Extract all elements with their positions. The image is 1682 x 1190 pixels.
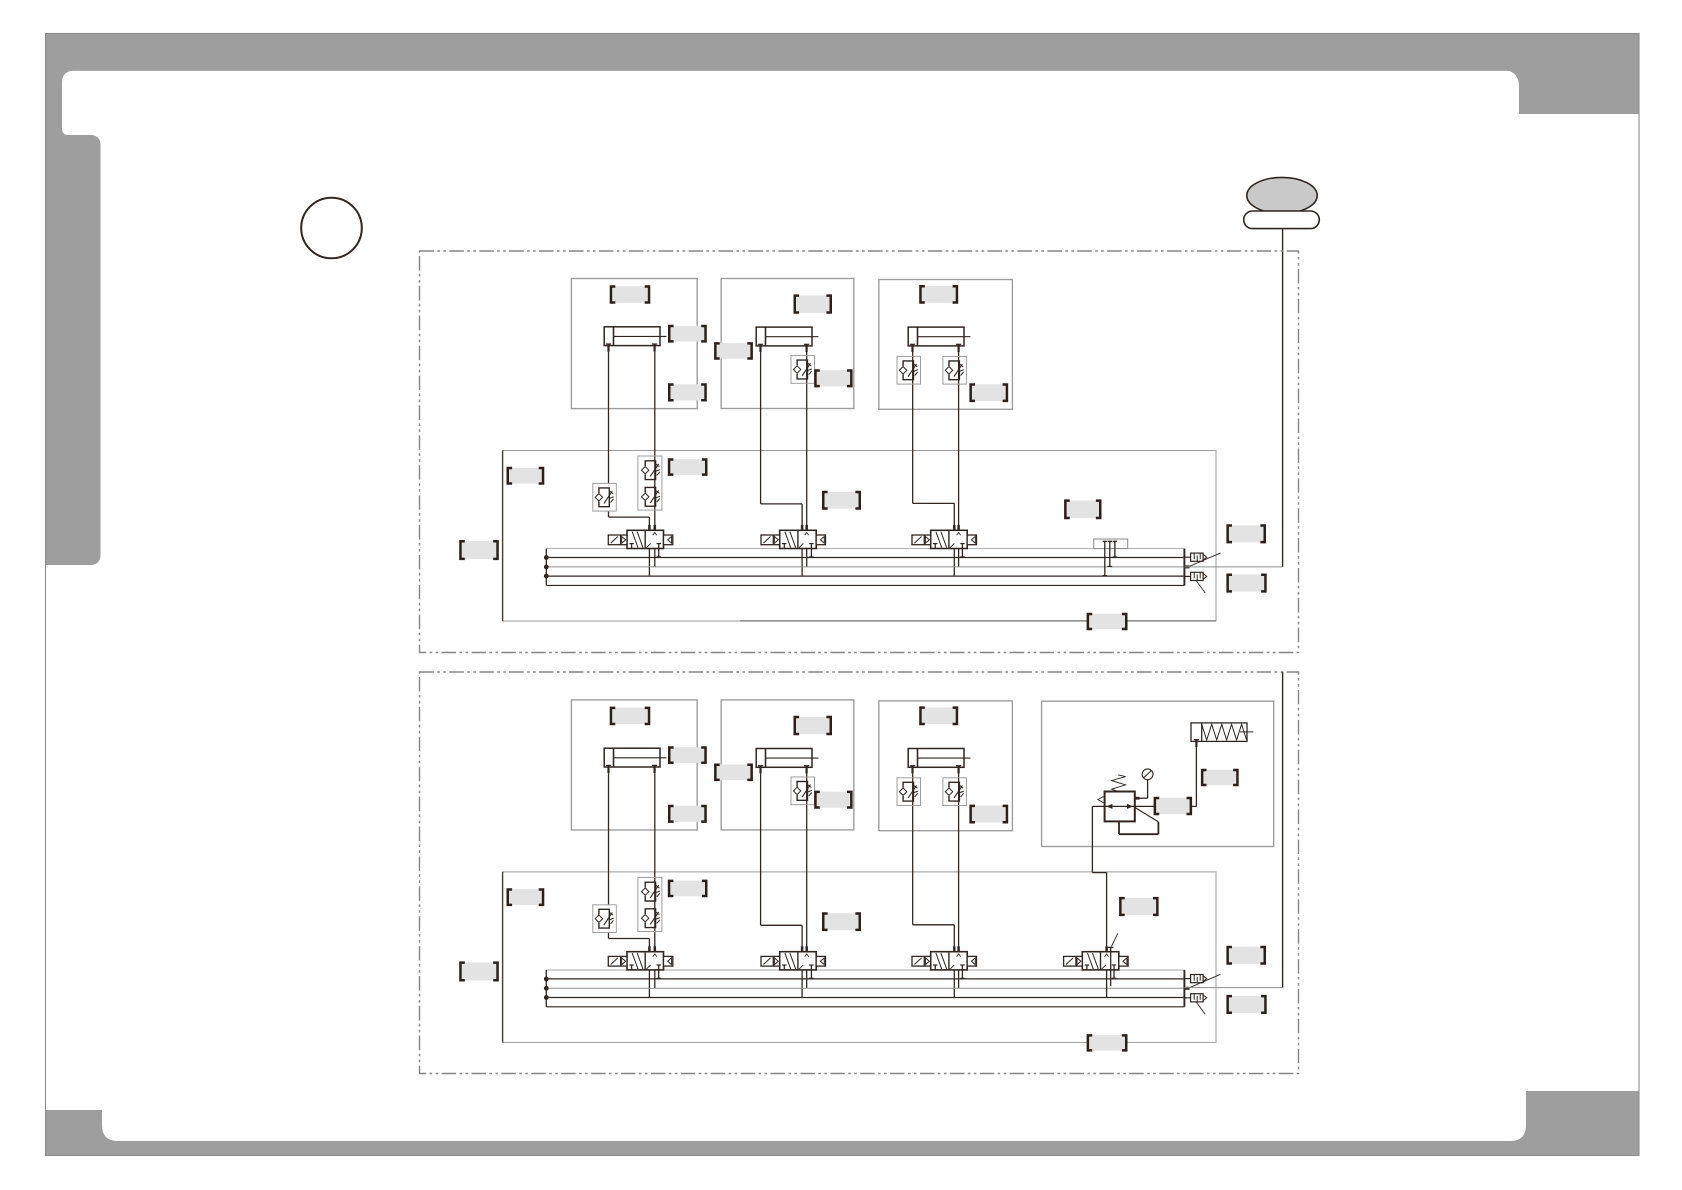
group box B4 (air prep) (1042, 701, 1274, 846)
solenoid valve AV3 (912, 525, 977, 557)
manifold box B (503, 872, 1216, 1043)
wire A1 right (654, 352, 656, 567)
wire A1 A drop (648, 517, 650, 576)
solenoid valve BV4 (1064, 946, 1129, 978)
flow control valve A3a (897, 356, 921, 384)
cylinder A1 (604, 327, 666, 352)
wire B2 A drop (801, 925, 803, 997)
manifold end plate A (1183, 549, 1185, 586)
flow control valve A1a (593, 483, 617, 511)
flow control valve A3b (943, 356, 967, 384)
manifold bus lines A (546, 548, 1184, 550)
label manifold B bottom (1088, 1035, 1126, 1051)
bus left terminator A (545, 549, 547, 586)
wire A1 left (608, 352, 610, 484)
label right2 B (1228, 996, 1266, 1013)
valve BV4 port stub (1110, 947, 1112, 986)
solenoid valve AV1 (608, 525, 673, 557)
label A2 left (715, 343, 751, 359)
wire B3 A drop (953, 925, 955, 998)
pressure gauge (1135, 769, 1153, 798)
silencer B1 (1191, 975, 1207, 983)
label B1 right (669, 747, 705, 763)
wire: spring cylinder to regulator (1195, 747, 1197, 806)
label manifold A tl (508, 468, 543, 484)
label valve BV4 (1120, 898, 1157, 915)
label B3 lower (971, 806, 1007, 823)
flow control valve B3b (943, 778, 967, 806)
label manifold A v3r (1065, 500, 1100, 518)
label B2 left (715, 765, 751, 781)
blanking plate (top manifold) (1094, 539, 1128, 549)
group box B1 (571, 700, 697, 830)
flow control valves B1b (638, 877, 662, 931)
wire: main supply line (top) (1282, 229, 1284, 567)
wire B1 A drop (648, 939, 650, 998)
label A1 right (669, 326, 705, 342)
leader lines B (1189, 974, 1220, 988)
enclosure: station 1 (dash-dot) (420, 251, 1299, 653)
flow control valve B2b (791, 777, 815, 805)
label B2 top (795, 717, 831, 734)
group box B2 (721, 700, 854, 830)
wire A3 A drop (953, 503, 955, 576)
wire A3 left (912, 352, 914, 504)
P line extension (top) (1184, 566, 1282, 568)
flow control valves A1b (638, 456, 662, 510)
pressure regulator (1092, 775, 1158, 834)
label manifold A bottom (1088, 614, 1126, 630)
cylinder B2 (756, 749, 818, 774)
wire B2 left (760, 773, 762, 925)
label B2 flow (815, 792, 851, 808)
label A2 flow (815, 370, 851, 386)
label manifold B v2 (823, 913, 860, 930)
flow control valve A2b (791, 356, 815, 384)
manifold bus lines B (546, 969, 1184, 971)
wire A2 A drop (801, 504, 803, 576)
label right2 A (1228, 575, 1266, 592)
label B1 top (611, 708, 649, 725)
wire A3 right (958, 352, 960, 567)
flow control valve B1a (593, 905, 617, 933)
wire A2 left (760, 352, 762, 504)
wire B1 left (608, 773, 610, 905)
solenoid valve AV2 (761, 525, 826, 557)
solenoid valve BV1 (608, 946, 673, 978)
label manifold A v2 (823, 492, 860, 509)
label A1 lower (669, 384, 705, 400)
silencer A1 (1191, 553, 1207, 561)
group box A1 (571, 279, 697, 409)
manifold end plate B (1183, 970, 1185, 1007)
silencer B2 (1191, 994, 1207, 1002)
solenoid valve BV3 (912, 946, 977, 978)
label A2 top (795, 295, 831, 312)
P port nub B (1184, 987, 1189, 990)
P line extension (bottom) (1184, 987, 1282, 989)
label right1 A (1228, 525, 1265, 542)
wire B1 right (654, 773, 656, 988)
wire: supply line (bottom) (1282, 672, 1284, 988)
label A3 top (920, 286, 957, 303)
label manifold B tl (508, 889, 543, 905)
air supply unit (1247, 177, 1317, 213)
label manifold B stack (669, 881, 706, 897)
solenoid valve BV2 (761, 946, 826, 978)
single-acting spring cylinder (1191, 723, 1253, 747)
wire B3 right (958, 773, 960, 988)
label box4 right (1202, 770, 1237, 786)
enclosure: station 2 (dash-dot) (420, 672, 1299, 1074)
label right1 B (1228, 947, 1265, 964)
group box A2 (721, 279, 854, 409)
leader to valve BV4 (1111, 933, 1117, 946)
cylinder A2 (756, 327, 818, 352)
wire: regulator input from valve BV4 (1091, 806, 1093, 872)
flow control valve B3a (897, 778, 921, 806)
label outside-left A (460, 541, 497, 559)
marker circle (301, 198, 362, 259)
label B3 top (920, 707, 957, 724)
manifold box A (503, 451, 1216, 622)
wire B2 right (806, 773, 808, 988)
cylinder B3 (908, 749, 970, 774)
leader lines A (1189, 553, 1220, 567)
wire B3 left (912, 773, 914, 925)
label B1 lower (669, 806, 705, 822)
group box A3 (879, 280, 1013, 410)
cylinder B1 (604, 748, 666, 773)
label outside-left B (460, 962, 497, 980)
P port nub A (1184, 565, 1189, 568)
silencer A2 (1191, 572, 1207, 580)
label manifold A stack (669, 459, 706, 475)
bus left terminator B (545, 970, 547, 1007)
label box4 inner (1155, 798, 1191, 815)
group box B3 (879, 701, 1013, 831)
wire A2 right (806, 352, 808, 567)
cylinder A3 (908, 327, 970, 352)
label A3 lower (971, 384, 1007, 401)
label A1 top (611, 286, 649, 303)
